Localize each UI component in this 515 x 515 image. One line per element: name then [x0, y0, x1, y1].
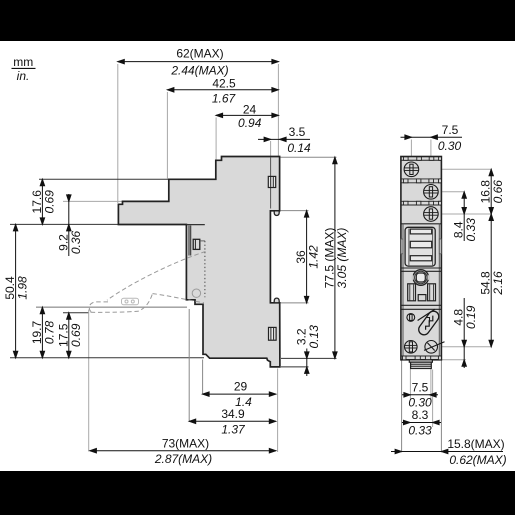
svg-text:0.30: 0.30	[438, 139, 462, 153]
front extension bottom screws right	[437, 346, 492, 348]
svg-text:0.33: 0.33	[464, 218, 478, 242]
extension line 3.5 left	[270, 141, 272, 157]
svg-text:2.16: 2.16	[491, 271, 505, 296]
divider band 2	[401, 201, 442, 205]
front extension screw1 right	[416, 168, 492, 170]
front extension screw2 right	[437, 191, 465, 193]
lever hole detail	[122, 298, 139, 305]
svg-text:2.44(MAX): 2.44(MAX)	[170, 63, 228, 77]
svg-text:0.13: 0.13	[307, 325, 321, 349]
extension line 29 left	[202, 360, 204, 395]
bottom screw right	[424, 341, 445, 354]
dimension 29	[203, 380, 276, 409]
svg-text:15.8(MAX): 15.8(MAX)	[447, 437, 504, 451]
lever open dashed lower curve	[153, 294, 205, 303]
dimension 15.8(MAX)	[391, 437, 507, 467]
connector slot left	[408, 284, 416, 301]
dimension 50.4	[3, 224, 30, 357]
band below window	[401, 267, 442, 269]
window bar 1	[410, 229, 431, 234]
svg-text:0.78: 0.78	[42, 320, 56, 344]
extension line 17.5 top	[63, 312, 89, 314]
front extension screw3 right	[437, 213, 492, 215]
front extension 15.8 left	[401, 361, 403, 453]
window bar 3	[410, 256, 431, 261]
retaining rings	[413, 270, 429, 286]
dimension 34.9	[189, 407, 276, 436]
extension line 17.6 top	[39, 178, 169, 180]
extension line 73 right	[277, 369, 279, 453]
dimension 77.5(MAX)	[322, 157, 349, 358]
svg-text:8.3: 8.3	[412, 408, 429, 422]
svg-text:1.67: 1.67	[212, 92, 237, 106]
svg-text:7.5: 7.5	[412, 380, 429, 394]
din hook tooth top	[274, 211, 279, 216]
top black bar	[0, 0, 515, 41]
side view body outline	[118, 157, 280, 367]
screw 1	[404, 162, 419, 177]
bottom black bar	[0, 471, 515, 515]
front extension 7.5top right	[430, 140, 432, 192]
extension line 3.2 bottom	[281, 366, 309, 368]
svg-text:0.36: 0.36	[69, 230, 83, 254]
extension line 3.2 top	[281, 357, 337, 359]
lever tip dashed outline	[89, 302, 108, 312]
divider band 1	[401, 179, 442, 183]
bottom screw left	[405, 341, 418, 354]
din clip top	[268, 176, 275, 187]
top band tabs	[404, 157, 442, 160]
dimension 3.2	[294, 325, 321, 376]
svg-text:24: 24	[243, 103, 257, 117]
dimension 3.5	[258, 125, 311, 155]
svg-text:mm: mm	[13, 55, 33, 69]
svg-text:0.69: 0.69	[69, 323, 83, 347]
svg-text:0.69: 0.69	[42, 190, 56, 214]
clip slot line	[270, 158, 272, 209]
window bar 2	[410, 241, 431, 248]
svg-text:3.5: 3.5	[289, 125, 306, 139]
svg-text:0.14: 0.14	[287, 141, 311, 155]
dimension 73(MAX)	[90, 436, 276, 466]
extension line 36 top	[280, 210, 308, 212]
latch detail	[193, 239, 200, 249]
strip inner wall	[188, 226, 190, 256]
dimension 19.7	[30, 307, 57, 358]
mm/in legend	[12, 55, 36, 83]
extension baseline y224	[10, 223, 118, 225]
dimension 7.5 bottom front	[402, 380, 438, 409]
relay edge dotted	[204, 241, 206, 297]
band lines	[401, 304, 442, 306]
svg-text:7.5: 7.5	[442, 123, 459, 137]
front view body	[401, 157, 442, 360]
extension line 19.7 top	[36, 306, 187, 308]
svg-text:34.9: 34.9	[221, 407, 245, 421]
dimension 17.5	[56, 313, 83, 358]
dimension 24	[216, 103, 278, 130]
svg-text:0.62(MAX): 0.62(MAX)	[449, 453, 506, 467]
extension line 34.9 left	[188, 309, 190, 422]
dimension 8.3	[402, 408, 441, 437]
strip top edge	[186, 224, 204, 226]
side tabs	[401, 239, 403, 254]
small screw	[407, 314, 415, 322]
extension line top right	[277, 64, 279, 156]
extension line 9.2 top	[63, 200, 123, 202]
din clip bottom	[269, 327, 277, 340]
extension line 73 left	[88, 310, 90, 452]
svg-text:2.87(MAX): 2.87(MAX)	[154, 452, 212, 466]
extension baseline y357.8	[10, 357, 204, 359]
front extension 7.5top left	[410, 140, 412, 167]
screw 3	[424, 207, 439, 222]
dimension 8.4	[452, 192, 479, 242]
dimension 17.6	[30, 179, 57, 224]
svg-text:0.33: 0.33	[408, 423, 432, 437]
front extension 15.8 right	[440, 361, 442, 453]
dimension 62(MAX)	[118, 47, 279, 78]
svg-text:1.42: 1.42	[307, 245, 321, 269]
dimension 36	[294, 211, 321, 303]
front extension 7.5bot left	[409, 354, 411, 400]
svg-text:1.98: 1.98	[16, 276, 30, 300]
svg-text:0.94: 0.94	[238, 116, 262, 130]
svg-text:0.19: 0.19	[464, 305, 478, 329]
extension line 62 left	[117, 64, 119, 203]
connector slot right	[428, 284, 436, 301]
pivot circle	[192, 289, 200, 297]
bottom band	[401, 356, 442, 360]
svg-text:in.: in.	[17, 69, 30, 83]
screw section bottom line	[401, 223, 442, 225]
side rails	[402, 224, 404, 356]
lever open dashed top curve	[107, 252, 206, 301]
top band line	[401, 159, 442, 161]
dimension 42.5	[167, 76, 278, 105]
extension line 24 left	[215, 118, 217, 160]
svg-text:42.5: 42.5	[212, 76, 236, 90]
svg-text:0.66: 0.66	[491, 180, 505, 204]
connector center square	[418, 295, 426, 301]
bottom tab	[409, 360, 432, 362]
svg-text:73(MAX): 73(MAX)	[162, 436, 209, 450]
dimension 16.8	[479, 169, 506, 214]
extension line 42.5 left	[166, 92, 168, 179]
screw 2	[424, 185, 439, 200]
relay window	[405, 227, 435, 266]
dimension 4.8	[452, 298, 479, 368]
extension line 36 bottom	[280, 302, 308, 304]
latch leader	[200, 240, 205, 242]
release clip icon	[418, 309, 439, 334]
dimension 7.5 top front	[401, 123, 463, 153]
svg-text:1.37: 1.37	[221, 422, 246, 436]
svg-text:29: 29	[234, 380, 248, 394]
svg-text:62(MAX): 62(MAX)	[176, 47, 223, 61]
dimension 9.2	[56, 194, 83, 256]
front extension 7.5bot right	[430, 354, 432, 400]
front extension 8.3 right	[432, 370, 434, 428]
dimension 54.8	[479, 214, 506, 347]
extension line 77.5 top	[281, 156, 337, 158]
svg-text:3.05 (MAX): 3.05 (MAX)	[335, 228, 349, 289]
din hook tooth bottom	[274, 298, 279, 303]
front extension body bottom right	[442, 359, 467, 361]
